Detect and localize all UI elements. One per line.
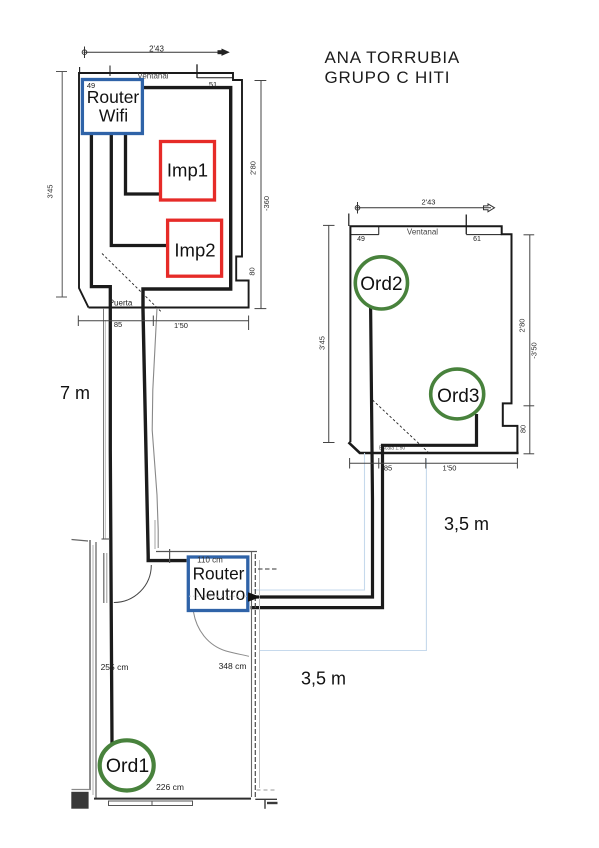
svg-text:2'80: 2'80 — [249, 161, 258, 175]
svg-text:1'50: 1'50 — [443, 464, 457, 473]
svg-text:2'80: 2'80 — [518, 319, 527, 333]
svg-text:Imp2: Imp2 — [174, 239, 215, 260]
svg-text:Ord2: Ord2 — [360, 274, 402, 295]
svg-text:-3'50: -3'50 — [530, 342, 539, 358]
svg-text:3,5 m: 3,5 m — [301, 669, 346, 689]
svg-text:Router: Router — [87, 87, 140, 107]
svg-text:Neutro: Neutro — [193, 584, 245, 604]
svg-text:GRUPO C HITI: GRUPO C HITI — [325, 68, 451, 87]
svg-text:51: 51 — [209, 80, 217, 89]
svg-text:Puerta: Puerta — [109, 299, 133, 308]
svg-text:Wifi: Wifi — [99, 106, 128, 126]
svg-text:2'43: 2'43 — [422, 198, 436, 207]
svg-text:3,5 m: 3,5 m — [444, 514, 489, 534]
svg-text:80: 80 — [248, 267, 257, 275]
svg-text:Router: Router — [193, 564, 245, 584]
svg-text:226 cm: 226 cm — [156, 782, 184, 792]
svg-text:348 cm: 348 cm — [219, 661, 247, 671]
svg-text:1'50: 1'50 — [174, 321, 188, 330]
svg-text:ANA TORRUBIA: ANA TORRUBIA — [325, 48, 461, 67]
svg-text:49: 49 — [357, 236, 365, 243]
svg-text:2'43: 2'43 — [149, 44, 164, 53]
svg-text:85: 85 — [384, 464, 392, 473]
svg-text:85: 85 — [114, 320, 122, 329]
svg-text:Ventanal: Ventanal — [407, 228, 438, 237]
svg-text:Ord3: Ord3 — [437, 386, 479, 407]
svg-text:3'45: 3'45 — [46, 185, 55, 199]
svg-text:Ord1: Ord1 — [106, 755, 149, 777]
svg-text:-360: -360 — [262, 196, 271, 211]
svg-text:7 m: 7 m — [60, 383, 90, 403]
svg-text:Imp1: Imp1 — [167, 160, 208, 181]
svg-text:61: 61 — [473, 236, 481, 243]
svg-text:255 cm: 255 cm — [101, 662, 129, 672]
svg-text:80: 80 — [519, 425, 528, 433]
svg-text:3'45: 3'45 — [318, 336, 327, 350]
